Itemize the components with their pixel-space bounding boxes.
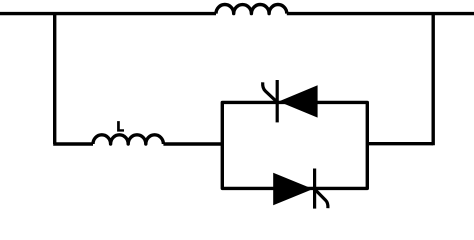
thyristor SCR2 (bottom branch, pointing right)	[273, 169, 328, 209]
wire right lead from box	[367, 142, 433, 145]
inductor (top, unlabeled)	[216, 4, 287, 13]
wire right vertical rise	[432, 14, 435, 146]
wire top-left segment	[0, 12, 216, 15]
parallel-branch frame (box)	[222, 102, 367, 188]
wire lower-left horizontal	[53, 142, 93, 145]
wire left vertical drop	[53, 13, 56, 145]
wire from L to box	[163, 142, 222, 145]
label L (inductor value)	[117, 121, 124, 131]
inductor L	[93, 135, 163, 144]
thyristor SCR1 (top branch, pointing left)	[263, 80, 318, 122]
wire top-right segment	[287, 12, 474, 15]
